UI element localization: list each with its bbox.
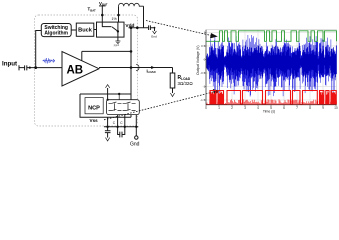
svg-text:pgnd: pgnd xyxy=(114,44,120,47)
wire C1 to ground xyxy=(150,28,154,31)
Gnd terminal wire xyxy=(135,127,137,136)
wire inductor to Vdd node xyxy=(143,6,145,28)
ILOAD current arrow xyxy=(151,66,154,69)
svg-text:6: 6 xyxy=(283,106,285,110)
svg-text:-1.5: -1.5 xyxy=(200,98,205,102)
svg-text:Output Voltage (V): Output Voltage (V) xyxy=(196,45,200,75)
input terminal xyxy=(19,65,25,70)
svg-text:VBAT: VBAT xyxy=(99,1,108,7)
svg-text:0.5: 0.5 xyxy=(201,44,205,48)
green Vdd tracking square wave xyxy=(206,31,337,42)
charge-pump switch matrix box xyxy=(107,100,140,115)
wire Vdd supply drop to amp and NCP xyxy=(130,28,132,118)
wire switch to inductor xyxy=(118,6,120,22)
svg-text:10: 10 xyxy=(334,106,338,110)
node rail flying cap right xyxy=(124,126,126,128)
svg-text:9: 9 xyxy=(322,106,324,110)
svg-text:3: 3 xyxy=(244,106,246,110)
scope axes xyxy=(206,30,337,105)
wire input to amp xyxy=(27,67,62,69)
node rail C2 xyxy=(106,126,108,128)
blue output voltage waveform xyxy=(207,35,337,97)
resistor RLOAD xyxy=(170,73,175,88)
svg-text:2: 2 xyxy=(231,106,233,110)
wire input to switching algorithm xyxy=(36,31,42,68)
svg-text:Input: Input xyxy=(2,60,17,67)
node Vss arrow base xyxy=(107,99,109,101)
scope plot frame xyxy=(206,30,337,105)
wire RLOAD to ground xyxy=(172,88,174,93)
node C1 ground xyxy=(154,27,156,29)
svg-text:Algorithm: Algorithm xyxy=(44,31,68,37)
chip boundary (dashed IC outline) xyxy=(35,15,138,126)
svg-text:AB: AB xyxy=(67,65,84,77)
VBAT supply terminal xyxy=(99,5,106,7)
Vss supply arrow to amp xyxy=(107,88,109,100)
svg-text:-0.5: -0.5 xyxy=(200,71,205,75)
wires matrix to external rail xyxy=(108,115,137,127)
node rail flying cap left xyxy=(116,126,118,128)
switching algorithm block xyxy=(41,24,71,37)
svg-text:1%: 1% xyxy=(112,17,118,21)
matrix switches row 1 xyxy=(109,102,136,103)
node rail gnd xyxy=(135,126,137,128)
node output junction xyxy=(130,66,133,69)
ground arrow at RLOAD xyxy=(170,93,174,97)
output wire to load xyxy=(99,68,173,74)
svg-text:Time (s): Time (s) xyxy=(263,109,275,113)
svg-text:8: 8 xyxy=(309,106,311,110)
svg-text:Gnd: Gnd xyxy=(130,142,140,148)
buck power-switch box xyxy=(97,22,125,37)
svg-text:Vss: Vss xyxy=(90,118,99,123)
inductor L1 xyxy=(119,3,144,6)
ground arrow at C1 xyxy=(153,31,157,34)
svg-text:Vdd: Vdd xyxy=(125,23,134,29)
matrix internal wires xyxy=(115,94,129,111)
Vdd decoupling capacitor C1 xyxy=(149,25,151,30)
matrix switches row 2 xyxy=(109,109,136,110)
buck converter block xyxy=(76,23,94,36)
node NCP feed xyxy=(118,93,120,95)
NCP charge-pump block xyxy=(85,98,103,114)
svg-text:0: 0 xyxy=(205,106,207,110)
node TBAT pin xyxy=(101,14,104,17)
Vss rail arrow xyxy=(106,138,110,141)
flying capacitor C xyxy=(118,127,125,138)
node amp supply junction xyxy=(130,50,133,53)
svg-text:Gnd: Gnd xyxy=(151,35,157,39)
NCP container box xyxy=(80,94,131,117)
svg-text:-1: -1 xyxy=(203,85,206,89)
wire VBAT to switch xyxy=(101,6,103,22)
Vss reservoir capacitor C2 xyxy=(105,127,111,138)
callout line Vdd to scope green trace xyxy=(146,21,212,36)
node Vdd junction xyxy=(130,26,133,29)
power ground symbol xyxy=(115,41,120,44)
node inductor pin xyxy=(117,14,120,17)
svg-text:7: 7 xyxy=(296,106,298,110)
wire switch to power ground xyxy=(117,31,119,41)
svg-text:Buck: Buck xyxy=(78,28,93,34)
input coupling capacitor Cin xyxy=(25,65,27,70)
Gnd terminal circle xyxy=(135,136,138,139)
red Vss square wave xyxy=(206,104,337,106)
wire amp top supply xyxy=(82,51,131,60)
node Vdd pin xyxy=(136,26,139,29)
scope plot gridlines xyxy=(219,30,323,105)
svg-text:TBAT: TBAT xyxy=(88,7,97,13)
scope axis labels xyxy=(196,31,338,114)
switch S1 (SPDT lever) xyxy=(102,22,118,31)
svg-text:1: 1 xyxy=(218,106,220,110)
svg-text:ILOAD: ILOAD xyxy=(147,68,156,74)
wire switching algorithm to buck xyxy=(71,29,76,31)
wire segment at ILOAD arrow xyxy=(148,67,152,69)
op-amp AB (class-AB output stage) xyxy=(62,52,99,87)
external component rail wire xyxy=(104,126,138,128)
input signal waveform icon xyxy=(43,58,55,64)
svg-text:C: C xyxy=(113,121,116,125)
svg-text:4: 4 xyxy=(257,106,259,110)
Vdd rail wire xyxy=(129,27,149,29)
callout line NCP caps to scope red trace xyxy=(104,92,214,120)
svg-text:3Ω/32Ω: 3Ω/32Ω xyxy=(178,81,194,86)
node input cap junction xyxy=(29,67,31,69)
output pin bracket on chip edge xyxy=(136,64,139,71)
wire buck to power switch xyxy=(94,29,97,31)
node input junction xyxy=(34,66,37,69)
svg-text:C: C xyxy=(120,121,123,125)
node switch common xyxy=(117,30,119,32)
svg-text:NCP: NCP xyxy=(88,106,100,112)
